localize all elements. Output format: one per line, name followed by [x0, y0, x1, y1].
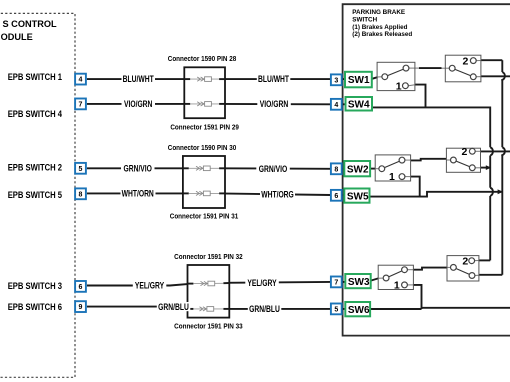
module title	[1, 19, 57, 42]
switch S2a lever	[382, 160, 402, 169]
wire SW6 net to right edge	[422, 308, 510, 309]
svg-text:1: 1	[389, 171, 395, 183]
switch S3a lever	[386, 270, 404, 278]
connector C1 (Connector 1590 PIN 28 / 1591 PIN 29)	[184, 67, 225, 118]
wire SW3 box to switch S3a common	[371, 278, 378, 280]
node SW3	[345, 274, 370, 288]
node SW1	[345, 72, 372, 88]
switch S2b lever	[453, 160, 472, 168]
pin 4 of parking brake switch (SW4)	[331, 99, 342, 110]
wire label GRN/BLU (right)	[248, 304, 281, 314]
svg-text:GRN/BLU: GRN/BLU	[249, 304, 280, 314]
switch S3b contacts	[451, 265, 457, 271]
svg-text:SW5: SW5	[347, 191, 369, 202]
svg-text:5: 5	[79, 166, 83, 173]
switch S1a contacts	[382, 74, 388, 80]
svg-text:Connector 1591 PIN 29: Connector 1591 PIN 29	[170, 124, 239, 131]
wire S2b bottom contact to bus A	[475, 167, 480, 169]
svg-text:SW4: SW4	[348, 99, 370, 110]
svg-text:(1) Brakes Applied: (1) Brakes Applied	[352, 24, 407, 31]
svg-text:EPB SWITCH 4: EPB SWITCH 4	[8, 108, 63, 119]
switch S2b rectangle	[446, 148, 480, 172]
wire SW1 box to switch S1a common	[372, 77, 378, 79]
bus A hop over SW5 net wire	[490, 188, 493, 196]
svg-text:1: 1	[396, 80, 402, 92]
bus B hop over S2b contact2 wire	[501, 147, 505, 155]
svg-text:2: 2	[462, 146, 468, 158]
switch S3a rectangle	[378, 265, 413, 289]
svg-text:3: 3	[334, 77, 338, 84]
wire S2b contact 2 to right edge	[475, 150, 480, 152]
switch S1b rectangle	[445, 55, 481, 82]
wire connector pin31 to SW5 pin6	[220, 193, 346, 195]
bus B vertical (from S1b contact 2)	[501, 60, 503, 72]
pin 7 of module (EPB SWITCH 4)	[75, 99, 86, 110]
svg-text:4: 4	[79, 77, 83, 84]
wire S2a contact 1 down to SW5 net	[405, 176, 411, 178]
svg-text:2: 2	[463, 55, 469, 67]
svg-text:EPB SWITCH 3: EPB SWITCH 3	[8, 280, 63, 291]
wire EPB SWITCH 5 pin8 to connector 1591 pin31	[87, 192, 190, 194]
wire label YEL/GRY (right)	[245, 278, 278, 288]
node SW5	[344, 189, 369, 203]
svg-text:PARKING BRAKE: PARKING BRAKE	[352, 9, 405, 16]
svg-text:Connector 1591 PIN 33: Connector 1591 PIN 33	[174, 323, 243, 330]
wire connector pin29 to SW4 pin4	[219, 103, 346, 105]
svg-text:7: 7	[334, 279, 338, 286]
svg-text:EPB SWITCH 6: EPB SWITCH 6	[8, 301, 63, 312]
wire EPB SWITCH 2 pin5 to connector 1590 pin30	[87, 167, 190, 169]
bus A hop over S2b contact2 wire	[490, 147, 493, 155]
wire connector pin30 to SW2 pin8	[220, 167, 346, 170]
wire EPB SWITCH 3 pin6 to connector 1591 pin32	[87, 284, 193, 286]
svg-text:7: 7	[79, 101, 83, 108]
svg-text:Connector 1590 PIN 30: Connector 1590 PIN 30	[168, 144, 237, 151]
pin 8 of parking brake switch (SW2)	[331, 163, 342, 174]
parking brake switch title	[352, 9, 412, 38]
wire S3b bottom contact to bus B bottom	[475, 274, 479, 276]
wire S3a top contact to S3b common with step	[407, 269, 413, 271]
svg-text:EPB SWITCH 1: EPB SWITCH 1	[8, 72, 63, 83]
pin 6 of parking brake switch (SW5)	[331, 190, 342, 201]
wire S1a contact 1 down to SW4 net	[408, 84, 415, 87]
svg-text:BLU/WHT: BLU/WHT	[258, 74, 289, 84]
wire connector pin28 to SW1 pin3	[219, 78, 346, 80]
switch S2a rectangle	[375, 155, 410, 181]
svg-text:SW2: SW2	[347, 164, 369, 175]
node SW6	[345, 302, 370, 316]
svg-text:YEL/GRY: YEL/GRY	[135, 280, 165, 290]
svg-text:WHT/ORG: WHT/ORG	[261, 190, 294, 200]
wire SW4 box to bus A	[372, 106, 490, 108]
module box (EPB control module, dashed border)	[0, 13, 75, 377]
wire label WHT/ORN (left)	[121, 189, 156, 199]
svg-text:8: 8	[334, 166, 338, 173]
svg-text:BLU/WHT: BLU/WHT	[123, 74, 154, 84]
wire connector pin33 to SW6 pin5	[223, 308, 346, 310]
svg-text:S CONTROL: S CONTROL	[3, 19, 57, 29]
wire label GRN/BLU (left)	[157, 302, 191, 312]
svg-text:Connector 1591 PIN 32: Connector 1591 PIN 32	[174, 253, 243, 260]
connector C3 (Connector 1591 PIN 32 / 1591 PIN 33)	[188, 265, 230, 318]
wire S3a contact 1 down to SW6 net	[407, 284, 413, 286]
svg-text:YEL/GRY: YEL/GRY	[247, 278, 277, 288]
switch S2b contacts	[451, 157, 457, 163]
wire EPB SWITCH 4 pin7 to connector 1591 pin29	[87, 103, 190, 105]
svg-text:WHT/ORN: WHT/ORN	[122, 189, 154, 199]
wire label BLU/WHT (right)	[257, 74, 291, 84]
svg-text:1: 1	[394, 279, 400, 291]
connector C2 (Connector 1590 PIN 30 / 1591 PIN 31)	[183, 156, 225, 208]
wire S2a top contact to S2b common	[405, 159, 411, 161]
svg-text:Connector 1590 PIN 28: Connector 1590 PIN 28	[168, 56, 237, 63]
svg-text:VIO/GRN: VIO/GRN	[260, 99, 289, 109]
wire label GRN/VIO (right)	[256, 164, 290, 174]
pin 6 of module (EPB SWITCH 3)	[75, 281, 86, 292]
parking brake switch box (solid border)	[343, 4, 510, 335]
junction arrow S2b to bus A	[486, 165, 491, 170]
svg-text:9: 9	[79, 304, 83, 311]
node SW2	[344, 161, 370, 176]
wire SW6 box to junction	[370, 308, 421, 310]
wire label WHT/ORG (right)	[260, 190, 295, 200]
svg-text:SW1: SW1	[348, 75, 370, 86]
wire label VIO/GRN (left)	[122, 99, 156, 109]
svg-text:4: 4	[334, 102, 338, 109]
svg-text:ODULE: ODULE	[1, 32, 33, 42]
svg-text:SWITCH: SWITCH	[352, 16, 377, 23]
svg-text:5: 5	[334, 306, 338, 313]
wire S1b bottom contact to right edge	[476, 76, 481, 78]
switch S1a rectangle	[377, 62, 415, 90]
pin 3 of parking brake switch (SW1)	[331, 74, 342, 85]
pin 8 of module (EPB SWITCH 5)	[75, 188, 86, 199]
wire label BLU/WHT (left)	[122, 74, 156, 84]
wire label VIO/GRN (right)	[257, 99, 291, 109]
node SW4	[346, 97, 373, 111]
svg-text:SW6: SW6	[348, 305, 370, 316]
svg-text:2: 2	[462, 255, 468, 267]
junction arrow SW5 net to bus B	[498, 189, 503, 194]
pin 4 of module (EPB SWITCH 1)	[75, 74, 86, 85]
switch S1a lever	[385, 68, 406, 77]
svg-text:VIO/GRN: VIO/GRN	[124, 99, 153, 109]
switch S1b lever	[452, 68, 473, 77]
wire EPB SWITCH 6 pin9 to connector 1591 pin33	[87, 307, 193, 309]
wire EPB SWITCH 1 pin4 to connector 1590 pin28	[87, 78, 190, 80]
wire label GRN/VIO (left)	[121, 163, 155, 173]
wire connector pin32 to SW3 pin7	[223, 281, 346, 284]
switch S2a contacts	[379, 166, 385, 172]
pin 5 of module (EPB SWITCH 2)	[75, 163, 86, 174]
wire label YEL/GRY (left)	[133, 280, 167, 290]
wire S1a top contact to S1b common	[409, 67, 419, 69]
svg-text:GRN/BLU: GRN/BLU	[158, 302, 189, 312]
wire SW5 box to bus B with step	[370, 192, 502, 197]
pin 5 of parking brake switch (SW6)	[331, 304, 342, 315]
switch S3a contacts	[383, 275, 389, 281]
svg-text:GRN/VIO: GRN/VIO	[259, 164, 287, 174]
bus B hop over S1b bottom wire	[501, 72, 505, 80]
wire S3b contact 2 to bus A bottom	[475, 260, 479, 262]
wire SW2 box to switch S2a common	[370, 168, 375, 170]
pin 9 of module (EPB SWITCH 6)	[75, 301, 86, 312]
switch S1b contacts	[449, 65, 455, 71]
svg-text:EPB SWITCH 2: EPB SWITCH 2	[8, 162, 63, 173]
svg-text:SW3: SW3	[348, 277, 370, 288]
svg-text:8: 8	[79, 191, 83, 198]
svg-text:Connector 1591 PIN 31: Connector 1591 PIN 31	[170, 213, 239, 220]
wire S1b contact 2 to bus B	[476, 60, 481, 62]
bus A vertical (SW4 net)	[489, 107, 491, 148]
svg-text:(2) Brakes Released: (2) Brakes Released	[352, 31, 412, 38]
svg-text:6: 6	[79, 284, 83, 291]
svg-text:GRN/VIO: GRN/VIO	[123, 163, 151, 173]
svg-text:6: 6	[334, 193, 338, 200]
svg-text:EPB SWITCH 5: EPB SWITCH 5	[8, 189, 63, 200]
switch S3b lever	[453, 267, 472, 275]
pin 7 of parking brake switch (SW3)	[331, 277, 342, 288]
switch S3b rectangle	[447, 256, 479, 281]
